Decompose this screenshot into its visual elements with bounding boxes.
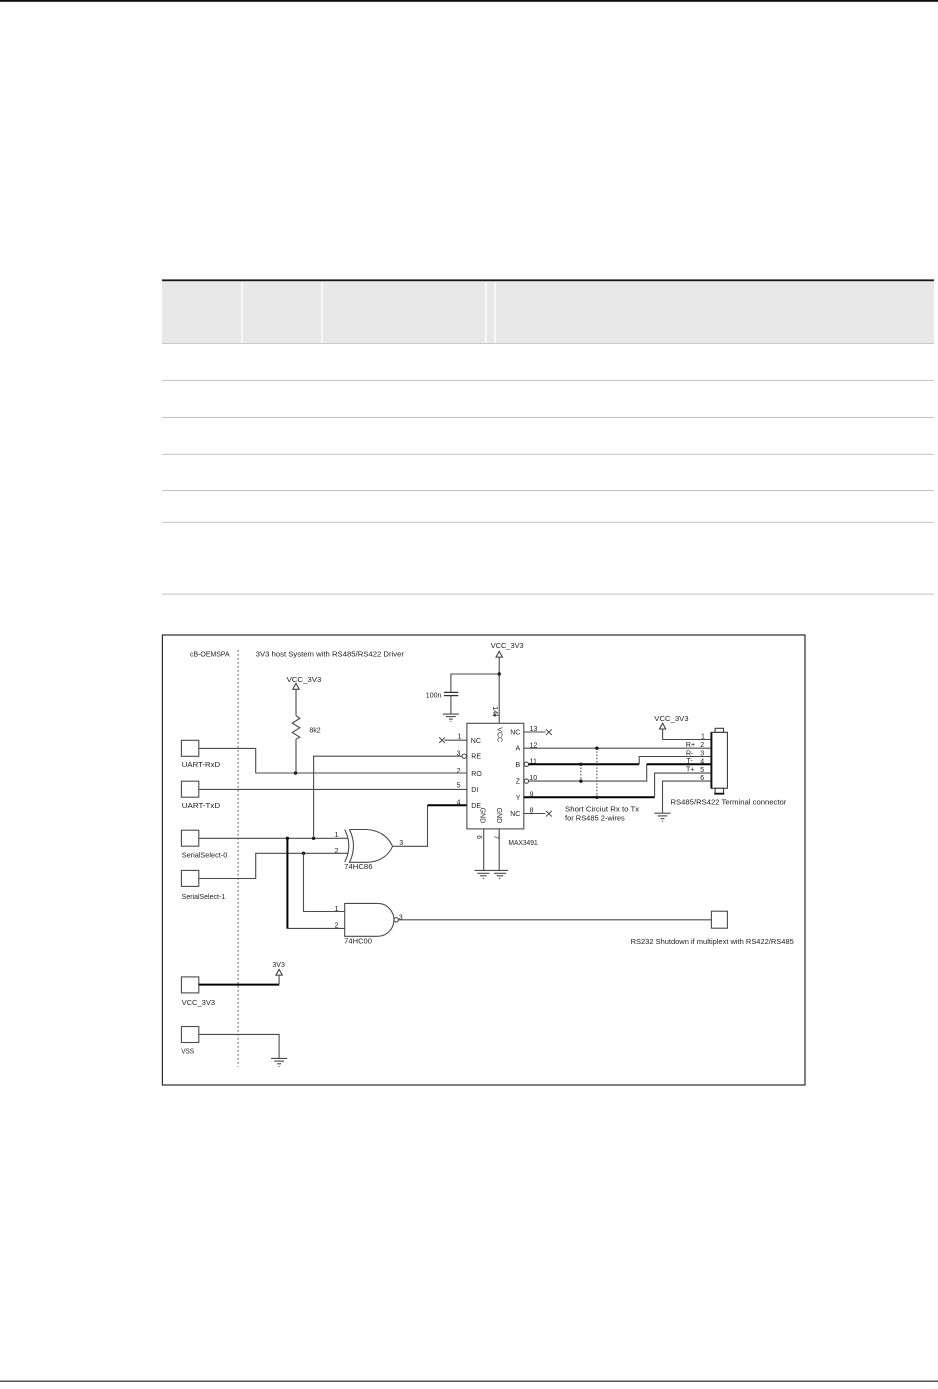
table header top border [162, 279, 934, 281]
node VCC junction [498, 672, 501, 675]
svg-text:T-: T- [687, 758, 694, 765]
no-connect X pin 1 [439, 737, 445, 743]
svg-text:Y: Y [516, 795, 521, 802]
svg-text:VCC_3V3: VCC_3V3 [491, 641, 524, 650]
wire XOR out to DE riser [393, 805, 428, 846]
svg-text:SerialSelect-0: SerialSelect-0 [182, 851, 228, 860]
svg-text:MAX3491: MAX3491 [508, 840, 537, 847]
XOR gate 74HC86 [349, 830, 392, 863]
pin 14 arrow tick [494, 714, 500, 716]
svg-text:8: 8 [530, 808, 534, 815]
wire RE net [314, 756, 462, 838]
table header bottom line [162, 343, 934, 344]
wire VSS to ground [199, 1034, 279, 1058]
NAND gate 74HC00 [345, 903, 394, 936]
svg-text:UART-TxD: UART-TxD [182, 801, 221, 810]
connector pad VCC_3V3 [181, 977, 198, 993]
svg-text:GND: GND [495, 808, 502, 824]
svg-text:VCC_3V3: VCC_3V3 [654, 716, 688, 723]
svg-text:3: 3 [399, 914, 403, 921]
svg-text:1: 1 [335, 832, 339, 839]
module boundary dashed line [237, 650, 239, 1067]
wire to NAND in2 [287, 927, 345, 929]
svg-text:Z: Z [516, 779, 521, 786]
svg-text:3: 3 [700, 750, 704, 757]
node SS1 junction [302, 852, 305, 855]
op-amp U1 MAX3491 body [467, 723, 524, 829]
dashed short A-Y [596, 748, 598, 797]
wire Z to T- riser [529, 764, 647, 781]
svg-text:2: 2 [700, 742, 704, 749]
node SS0 junction 1 [286, 837, 289, 840]
svg-text:GND: GND [478, 808, 485, 824]
svg-text:T+: T+ [686, 766, 694, 773]
svg-text:10: 10 [529, 775, 537, 782]
svg-text:4: 4 [700, 758, 704, 765]
svg-text:12: 12 [530, 743, 538, 750]
svg-text:A: A [516, 746, 521, 753]
svg-text:VSS: VSS [181, 1047, 194, 1056]
svg-text:DI: DI [471, 787, 478, 794]
wire T- stub (bold) [647, 763, 712, 765]
svg-text:5: 5 [700, 767, 704, 774]
wire SerialSelect-0 to XOR in1 [199, 837, 349, 839]
svg-text:Short Circiut Rx to Tx: Short Circiut Rx to Tx [565, 807, 640, 814]
svg-text:5: 5 [457, 783, 461, 790]
wire B step up to R- [639, 757, 711, 765]
svg-text:SerialSelect-1: SerialSelect-1 [182, 892, 225, 901]
svg-text:3V3 host System with RS485/RS4: 3V3 host System with RS485/RS422 Driver [256, 649, 405, 658]
node Y junction [595, 796, 598, 799]
svg-text:74HC00: 74HC00 [344, 938, 372, 945]
svg-text:RO: RO [471, 771, 482, 778]
wire B (bold) [529, 763, 640, 765]
node RO junction [294, 771, 297, 774]
ground IC (double) [475, 870, 509, 878]
svg-text:100n: 100n [426, 693, 442, 700]
node B junction [579, 763, 582, 766]
svg-text:2: 2 [457, 768, 461, 775]
wire SS0 drop (bold) [286, 838, 288, 928]
connector pad UART-TxD [181, 781, 198, 797]
table row line 4 [162, 490, 934, 491]
svg-text:4: 4 [457, 800, 461, 807]
table row line 2 [162, 417, 934, 418]
capacitor 100n [444, 691, 458, 693]
terminal connector body [711, 732, 727, 788]
svg-text:RE: RE [471, 754, 481, 761]
wire Y (bold) [524, 796, 655, 798]
wire IC GND pins [483, 829, 485, 870]
wire VCC to capacitor [451, 674, 499, 692]
svg-text:RS232 Shutdown if multiplext: RS232 Shutdown if multiplext with RS422/… [631, 939, 794, 946]
NAND output bubble [394, 918, 398, 922]
wire terminal pin 6 to ground [663, 781, 712, 813]
pin B bubble [524, 762, 528, 766]
wire pin 1 [445, 739, 467, 741]
svg-text:B: B [516, 762, 521, 769]
table header cell 5 [496, 281, 934, 343]
table header cell 3 [323, 281, 486, 343]
ground capacitor [443, 714, 459, 721]
wire NAND out to RS232 shutdown [398, 919, 711, 921]
svg-text:NC: NC [510, 811, 520, 818]
wire SS1 to NAND in1 [304, 853, 345, 911]
svg-text:11: 11 [530, 758, 537, 765]
pin Z bubble [524, 779, 528, 783]
svg-text:VCC_3V3: VCC_3V3 [182, 998, 216, 1007]
node SS0 junction 2 [312, 837, 315, 840]
wire VCC to terminal pin 1 [663, 729, 712, 740]
table row line 3 [162, 454, 934, 455]
svg-text:6: 6 [700, 775, 704, 782]
svg-text:1: 1 [335, 906, 339, 913]
svg-text:2: 2 [335, 923, 339, 930]
wire resistor to RO net [295, 739, 297, 773]
svg-text:9: 9 [530, 792, 534, 799]
page bottom rule [0, 1381, 938, 1382]
terminal connector bottom tab [715, 788, 723, 793]
svg-text:VCC_3V3: VCC_3V3 [287, 675, 322, 684]
connector pad VSS [181, 1027, 198, 1043]
wire UART-RxD to RO [199, 748, 467, 773]
table row line 1 [162, 380, 934, 381]
svg-text:1: 1 [458, 734, 462, 741]
svg-text:for RS485 2-wires: for RS485 2-wires [565, 815, 625, 822]
wire pin 13 NC [524, 731, 546, 733]
wire UART-TxD to DI [199, 788, 467, 790]
svg-text:NC: NC [471, 738, 481, 745]
wire DE (bold) [428, 804, 467, 806]
pin 3 RE bubble [462, 754, 466, 758]
svg-text:74HC86: 74HC86 [344, 864, 372, 871]
svg-text:R+: R+ [686, 742, 695, 749]
svg-text:R-: R- [686, 750, 694, 757]
ground VSS [271, 1058, 287, 1066]
figure frame [162, 635, 805, 1085]
table header cell 2 [243, 281, 322, 343]
svg-text:8k2: 8k2 [309, 728, 320, 735]
no-connect X pin 8 [546, 811, 552, 817]
svg-text:14: 14 [491, 706, 498, 714]
svg-text:3V3: 3V3 [272, 962, 285, 969]
svg-text:VCC: VCC [496, 727, 503, 742]
svg-text:3: 3 [457, 750, 461, 757]
svg-text:7: 7 [492, 835, 499, 839]
connector pad SerialSelect-1 [181, 870, 198, 886]
wire VCC to IC pin 14 [498, 657, 500, 723]
connector pad RS232 shutdown [711, 911, 727, 928]
svg-text:NC: NC [510, 730, 520, 737]
wire SerialSelect-1 to XOR in2 [199, 853, 349, 878]
resistor 8k2 [292, 716, 300, 740]
node A junction [595, 747, 598, 750]
svg-text:1: 1 [701, 734, 705, 741]
table row line 6 [162, 594, 934, 595]
connector pad SerialSelect-0 [181, 830, 198, 846]
connector pad UART-RxD [181, 740, 198, 756]
terminal connector top tab [715, 728, 723, 732]
table header cell 1 [162, 281, 241, 343]
svg-text:UART-RxD: UART-RxD [182, 760, 221, 769]
wire pin 8 NC [524, 813, 546, 815]
page top bar [0, 0, 938, 2]
wire VCC_3V3 (bold) [199, 984, 279, 986]
wire A to R+ [524, 747, 712, 749]
svg-text:cB-OEMSPA: cB-OEMSPA [190, 649, 230, 658]
svg-text:13: 13 [530, 726, 538, 733]
no-connect X pin 13 [546, 729, 552, 735]
table header cell 4 [487, 281, 495, 343]
svg-text:RS485/RS422 Terminal connector: RS485/RS422 Terminal connector [671, 800, 788, 807]
svg-text:6: 6 [475, 835, 482, 839]
svg-text:2: 2 [335, 848, 339, 855]
dashed short B-Z [580, 764, 582, 781]
ground terminal [654, 813, 670, 821]
wire capacitor to ground [450, 696, 452, 714]
node Z junction [579, 779, 582, 782]
table row line 5 [162, 522, 934, 523]
wire VCC to resistor [295, 689, 297, 715]
wire Y to T+ riser [655, 773, 712, 797]
